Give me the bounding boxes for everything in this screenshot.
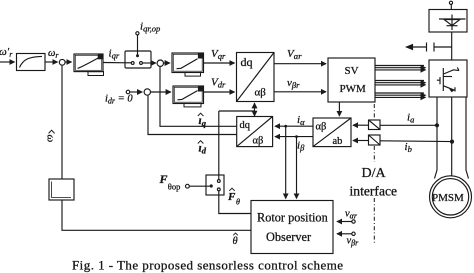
node: junction on i_beta — [295, 135, 298, 138]
wire: S3 to d-axis PI — [151, 91, 171, 93]
wire: DC link — [451, 32, 453, 60]
motor PMSM — [430, 176, 472, 218]
wire: ib measurement line — [380, 140, 452, 143]
svg-text:idr = 0: idr = 0 — [105, 94, 133, 106]
wire: SW2 output to observer — [219, 191, 251, 214]
wire: theta horizontal link — [219, 110, 255, 112]
svg-text:iqr: iqr — [109, 48, 120, 61]
node V_dr label — [211, 77, 226, 90]
wire: i_qr,op down to SW1 — [137, 35, 139, 56]
svg-text:iqr,op: iqr,op — [140, 21, 160, 34]
svg-text:PWM: PWM — [340, 83, 367, 95]
wire: SW1 to summing junction S2 — [143, 62, 156, 64]
wire: i_alpha drop to observer — [285, 126, 287, 198]
svg-text:PMSM: PMSM — [432, 192, 464, 204]
node V_alpha_r label — [287, 48, 302, 61]
svg-text:ω′r: ω′r — [0, 46, 13, 59]
wire: speed PI to switch SW1 — [104, 62, 132, 64]
wire: v_beta into observer — [337, 233, 352, 235]
svg-text:Vdr: Vdr — [211, 77, 226, 90]
svg-text:vβr: vβr — [287, 77, 300, 90]
wire: theta column down to switch SW2 — [218, 111, 220, 180]
node: junction phase a current tap — [435, 123, 439, 127]
node i_dr = 0 label — [105, 94, 133, 106]
svg-text:interface: interface — [350, 184, 398, 199]
wire: theta to voltage transform (arrow up) — [254, 103, 256, 111]
svg-text:F: F — [159, 172, 168, 186]
terminal for F_theta_op — [186, 184, 190, 188]
svg-text:vαr: vαr — [345, 209, 358, 221]
block: current dq transform U2 — [237, 117, 273, 147]
svg-text:dq: dq — [241, 55, 253, 69]
block: d-axis current PI controller — [173, 86, 204, 107]
svg-text:θ: θ — [236, 198, 240, 207]
svg-text:Vαr: Vαr — [287, 48, 302, 61]
svg-text:ib: ib — [405, 141, 412, 154]
wire: gate signal bus 2 — [375, 81, 426, 85]
svg-text:θop: θop — [168, 182, 181, 192]
wire: gate signal bus 1 (SVPWM to inverter) — [375, 66, 426, 70]
node D/A interface label — [350, 166, 398, 199]
wire: gate signal bus 3 — [375, 93, 426, 97]
node theta estimate label — [233, 233, 238, 247]
block: speed ramp generator — [17, 54, 46, 71]
svg-text:dq: dq — [240, 120, 251, 131]
svg-text:ab: ab — [333, 136, 343, 147]
node i_qr label — [109, 48, 120, 61]
svg-text:Vqr: Vqr — [211, 48, 226, 61]
svg-text:D/A: D/A — [362, 166, 387, 181]
block: rectifier — [429, 10, 467, 33]
wire: V_beta to SV PWM — [274, 91, 326, 93]
wire: V_alpha to SV PWM — [274, 63, 326, 65]
wire: phase a from inverter — [435, 97, 438, 179]
capacitor C1 (DC link) — [427, 43, 452, 52]
wire: SVPWM down into ab transform — [338, 102, 340, 116]
caption: figure title — [72, 258, 343, 273]
wire: S2 to q-axis PI — [164, 62, 170, 64]
svg-text:F: F — [227, 191, 236, 203]
svg-text:Observer: Observer — [266, 230, 311, 244]
terminal for i_qr,op — [136, 32, 139, 35]
wire: X2 to ab transform — [353, 140, 369, 142]
block: q-axis current PI controller — [172, 53, 204, 76]
A/D converter X1 — [369, 120, 381, 130]
diode D1 (rectifier symbol) — [439, 15, 466, 31]
node v_alpha_r observer input label — [345, 209, 358, 221]
block: dq to alpha-beta voltage transform U1 — [237, 53, 275, 102]
svg-text:ω: ω — [45, 135, 57, 143]
svg-text:ıd: ıd — [199, 143, 207, 156]
terminal v_alpha — [352, 220, 355, 223]
node F_theta_op input label — [159, 172, 181, 192]
node i_q estimate label — [198, 113, 207, 128]
wire: idr to summing junction S3 — [130, 91, 142, 93]
node F_theta estimate label — [227, 188, 240, 206]
wire: phase c from inverter — [466, 97, 469, 179]
summing junction S2 (q-current) — [157, 60, 163, 66]
wire: i_alpha from ab transform to dq transform — [275, 125, 313, 127]
node i_d estimate label — [198, 141, 207, 156]
wire: Vqr to dq/ab transform — [204, 62, 235, 64]
svg-text:vβr: vβr — [347, 236, 360, 248]
node i_b label — [405, 141, 412, 154]
svg-text:SV: SV — [345, 65, 359, 77]
wire: id feedback line — [148, 96, 237, 135]
wire: theta to current transform (arrow down) — [254, 111, 256, 116]
svg-text:ia: ia — [407, 112, 414, 125]
switch SW1 (i_qr selection) — [125, 51, 151, 68]
svg-text:Rotor position: Rotor position — [257, 211, 328, 225]
wire: ramp to speed summing junction — [45, 61, 58, 63]
node omega_r label — [48, 48, 59, 60]
node i_qr,op optimal current input label — [140, 21, 160, 34]
block: inverter — [429, 60, 467, 97]
node V_beta_r label — [287, 77, 300, 90]
node i_a label — [407, 112, 414, 125]
terminal v_beta — [352, 232, 355, 235]
D/A interface boundary dash-dot line — [373, 104, 375, 244]
summing junction S3 (d-current) — [144, 89, 150, 95]
block: alpha-beta to ab transform U3 — [313, 118, 351, 147]
wire: S1 to speed PI controller — [65, 61, 71, 63]
svg-text:αβ: αβ — [253, 136, 264, 147]
node i_alpha label — [297, 114, 305, 127]
wire: i_beta drop to observer — [296, 137, 298, 199]
node: junction on i_alpha — [284, 125, 287, 128]
wire: F_theta_op into switch SW2 — [189, 185, 209, 187]
wire: ia measurement line — [380, 124, 437, 126]
node omega estimate label — [45, 130, 57, 142]
terminal for i_dr — [126, 90, 130, 94]
node v_beta_r observer input label — [347, 236, 360, 248]
wire: v_alpha into observer — [337, 221, 352, 223]
wire: i_beta from ab transform to dq transform — [275, 136, 313, 138]
wire: theta output to derivative block — [62, 200, 251, 230]
wire: X1 to ab transform — [353, 124, 369, 126]
A/D converter X2 — [369, 135, 381, 145]
switch SW2 (flux selection) — [206, 175, 224, 195]
block: rotor position observer — [251, 201, 333, 254]
summing junction S1 (speed) — [59, 59, 65, 65]
block: derivative (speed estimator) — [49, 179, 74, 200]
transistor Q1 (IGBT symbol) — [437, 67, 459, 92]
wire: speed reference into ramp block — [0, 61, 15, 63]
node: junction phase b current tap — [450, 140, 454, 144]
svg-text:θ: θ — [233, 236, 238, 247]
node i_beta label — [297, 140, 305, 153]
svg-text:iα: iα — [297, 114, 305, 127]
wire: phase b from inverter — [451, 97, 453, 177]
node omega_r* reference input label — [0, 46, 13, 59]
svg-text:Fig. 1 - The proposed sensorle: Fig. 1 - The proposed sensorless control… — [72, 258, 343, 273]
wire: omega estimate up to speed summing junction — [61, 65, 63, 179]
terminal: AC supply — [449, 1, 452, 4]
wire: supply to rectifier — [450, 5, 452, 10]
svg-text:αβ: αβ — [316, 122, 327, 133]
svg-text:αβ: αβ — [255, 87, 267, 99]
node V_qr label — [211, 48, 226, 61]
wire: iq feedback line — [160, 67, 237, 127]
block: speed PI controller — [74, 54, 104, 76]
block: SV PWM modulator — [328, 58, 375, 102]
wire: Vdr to dq/ab transform — [204, 91, 235, 93]
svg-text:ωr: ωr — [48, 48, 59, 60]
svg-text:iβ: iβ — [297, 140, 305, 153]
wire: DC voltage measurement arrow — [407, 45, 427, 50]
